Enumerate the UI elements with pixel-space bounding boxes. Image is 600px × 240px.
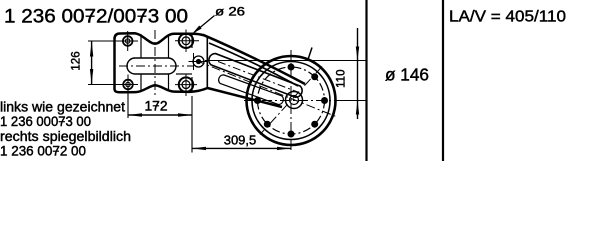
flange vertical centerline	[154, 30, 156, 97]
dimension 309,5 arrow right	[277, 147, 291, 150]
crossbar of 7 in note line 2	[59, 121, 65, 123]
svg-text:ø 146: ø 146	[385, 64, 429, 84]
arm top outline	[203, 35, 305, 84]
bushing hole bottom-right	[175, 74, 197, 97]
arm boss edge	[209, 43, 298, 86]
flange contour line c	[168, 34, 170, 58]
flange horizontal centerline	[119, 65, 193, 67]
hub bolt 6	[264, 121, 271, 128]
arm rib centerline	[218, 62, 299, 93]
dimension 172 arrow left	[128, 113, 142, 116]
hub bolt 7	[254, 97, 261, 104]
dimension 172 extension left	[127, 90, 129, 118]
flange slot (stadium)	[127, 58, 176, 74]
svg-text:1 236 0072 00: 1 236 0072 00	[0, 144, 86, 159]
bushing hole top-right (diameter 26)	[175, 30, 199, 53]
crossbar of 7 in title (first)	[86, 15, 95, 17]
dimension 309,5 arrow left	[192, 147, 206, 150]
hub vertical centerline	[290, 50, 292, 153]
svg-text:LA/V = 405/110: LA/V = 405/110	[449, 8, 566, 25]
flange outline	[115, 33, 208, 92]
flange contour line b	[140, 74, 142, 92]
dimension 309,5 line	[192, 147, 291, 149]
flange contour line d	[168, 74, 170, 92]
leader line 26	[194, 16, 215, 33]
svg-text:172: 172	[144, 98, 167, 113]
hub bolt circle	[258, 67, 325, 134]
dimension 126 arrow down	[90, 69, 93, 85]
dimension 126 arrow up	[90, 41, 93, 57]
boss contour line below right bushing	[176, 73, 192, 75]
leader arrow 26	[192, 26, 202, 35]
svg-text:ø 26: ø 26	[215, 5, 245, 19]
flange right face edge	[206, 36, 208, 88]
hub bolt 1	[288, 64, 295, 71]
svg-text:1 236 00073 00: 1 236 00073 00	[0, 114, 91, 129]
dimension 126 extension bottom	[88, 84, 138, 86]
hub bolt 4	[311, 121, 318, 128]
hub stub circle outer	[286, 92, 303, 109]
dimension 172 extension right	[191, 96, 193, 118]
svg-text:links wie gezeichnet: links wie gezeichnet	[0, 100, 125, 115]
hub rim circle	[252, 62, 330, 140]
dimension 309,5 extension left	[191, 118, 193, 153]
dimension 110 arrow down (top)	[356, 47, 359, 61]
dimension 172 arrow right	[178, 113, 192, 116]
svg-text:1 236 0072/0073 00: 1 236 0072/0073 00	[4, 7, 188, 28]
hub radial tick top-right	[308, 48, 313, 62]
hub outer circle	[247, 56, 336, 145]
svg-text:110: 110	[335, 70, 347, 88]
arm axis centerline	[196, 61, 336, 117]
flange contour line a	[140, 34, 142, 58]
hub horizontal centerline	[244, 100, 340, 102]
arm rib stadium lower	[219, 75, 284, 105]
dimension 110 line	[357, 28, 359, 119]
hub bolt 2	[311, 73, 318, 80]
svg-text:rechts spiegelbildlich: rechts spiegelbildlich	[0, 129, 131, 144]
dimension 126 extension top	[88, 40, 138, 42]
table border line 2	[442, 0, 444, 161]
crossbar of 7 in title (second)	[137, 15, 146, 17]
svg-text:309,5: 309,5	[224, 133, 257, 148]
crossbar of 7 in dimension 172	[153, 105, 159, 107]
dimension 110 arrow up (bottom)	[356, 101, 359, 115]
dimension 110 extension bottom (hub axis)	[336, 100, 366, 102]
dimension 110 extension top (pivot axis)	[205, 60, 366, 62]
arm rib stadium upper	[209, 54, 302, 98]
dimension 126 line	[91, 41, 93, 85]
flange contour line e	[191, 34, 193, 48]
svg-text:126: 126	[70, 51, 82, 70]
pivot point mark	[189, 53, 209, 70]
hub bolt 3	[321, 97, 328, 104]
flange contour line f	[191, 77, 193, 92]
arm bottom outline	[208, 88, 283, 107]
hub stub circle inner	[290, 96, 299, 105]
bolt hole bottom-left	[123, 75, 133, 95]
hub bolt 5	[288, 131, 295, 138]
dimension 172 line	[128, 114, 192, 116]
hub diagonal centerline	[260, 67, 322, 135]
crossbar of 7 in note line 4	[53, 150, 59, 152]
bolt hole top-left	[123, 31, 133, 51]
table border line 1	[365, 0, 367, 161]
